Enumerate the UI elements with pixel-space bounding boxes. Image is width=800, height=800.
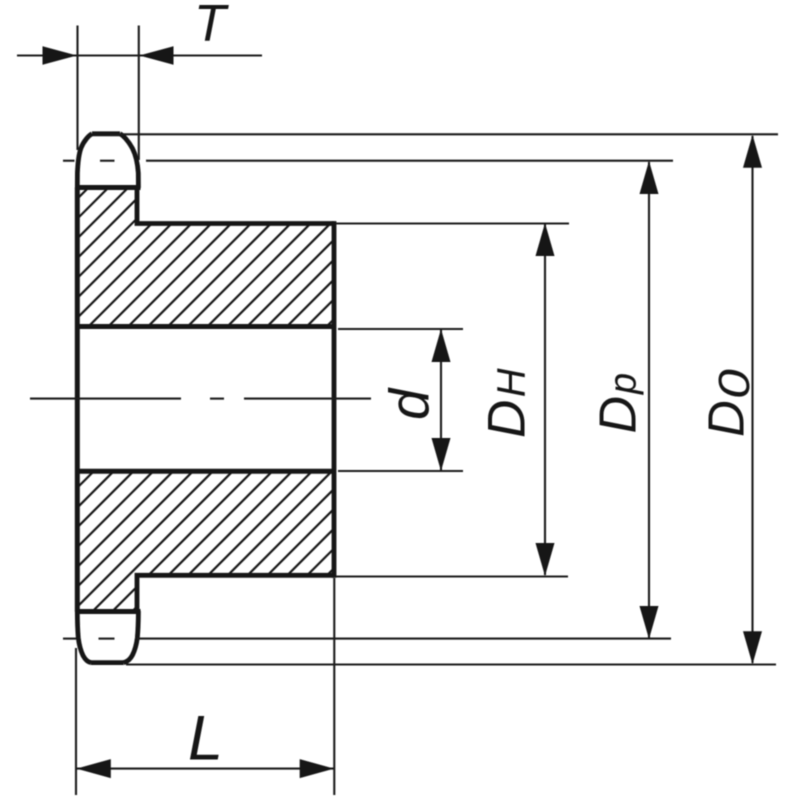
T arrow right [139,46,173,64]
Dp dimension line [648,162,650,638]
Dp bottom extension line [137,638,671,640]
svg-text:L: L [188,704,223,774]
top tooth root line [76,185,141,190]
T dimension line [17,54,262,56]
L dimension line [76,768,334,770]
centerline dash 1 [30,398,181,400]
L left extension line [75,648,77,795]
upper hatched section (plate + hub) [0,180,473,335]
Dp arrow top [640,161,659,194]
pitch dash left of top tooth [63,160,75,162]
plate left edge [75,188,80,612]
centerline dash 2 [210,398,224,400]
d top extension line [338,328,463,330]
Dp top extension line (pitch) [146,160,673,162]
d arrow top [432,329,451,362]
svg-text:T: T [194,0,229,53]
D0 bottom extension line [126,663,776,665]
bore bottom edge [77,469,334,474]
centerline dash 3 [244,398,371,400]
svg-text:0: 0 [710,369,758,399]
plate right edge upper / hub top edge [137,188,334,224]
DH dimension line [544,224,546,575]
T right extension line [138,26,140,161]
DH bottom extension line [336,575,568,577]
D0 arrow top [743,135,762,168]
bore top edge [77,324,334,329]
L arrow left [77,759,111,778]
D0 dimension line [751,136,753,663]
svg-text:d: d [378,387,441,420]
d arrow bottom [432,438,451,471]
DH top extension line [336,222,569,224]
d bottom extension line [338,470,463,472]
D0 arrow bottom [743,631,762,664]
lower hatched section (plate + hub) [0,465,477,618]
pitch dash left of bottom tooth [63,638,76,640]
pitch dash inside top tooth [100,160,115,162]
top tooth outline [77,134,138,188]
d dimension line [440,330,442,470]
hub bottom edge / plate right edge lower [137,575,334,611]
svg-text:D: D [698,400,755,437]
L right extension line [333,578,335,795]
T left extension line [76,26,78,151]
D0 top extension line [110,133,778,135]
hub right edge [332,221,337,578]
bottom tooth outline [77,611,138,663]
DH arrow bottom [536,543,555,576]
bottom tooth root line [76,609,141,614]
pitch dash inside bottom tooth [99,638,115,640]
Dp arrow bottom [640,606,659,639]
DH arrow top [536,223,555,256]
L arrow right [300,759,334,778]
T arrow left [43,46,77,64]
